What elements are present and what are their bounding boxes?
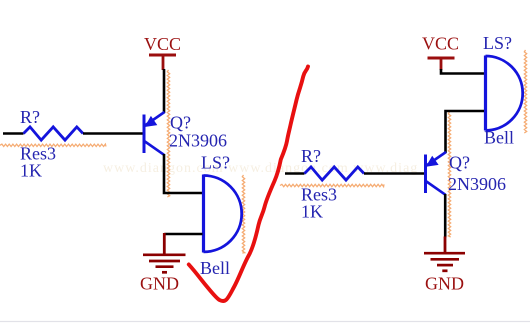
transistor Q1 2N3906	[144, 112, 165, 155]
svg-text:Bell: Bell	[200, 258, 230, 278]
wire right stub to resistor R2	[285, 172, 305, 175]
bottom screenshot edge line	[0, 321, 530, 323]
ground GND right	[424, 237, 465, 294]
svg-text:VCC: VCC	[422, 34, 459, 54]
error squiggle on left VCC net	[167, 70, 169, 197]
svg-text:1K: 1K	[301, 202, 323, 222]
error squiggle on right emitter-collector net	[448, 112, 450, 237]
svg-text:R?: R?	[20, 107, 40, 127]
svg-text:2N3906: 2N3906	[448, 174, 506, 194]
svg-text:GND: GND	[140, 274, 179, 294]
error squiggle on left speaker	[242, 175, 244, 253]
svg-text:LS?: LS?	[483, 33, 512, 53]
svg-text:1K: 1K	[20, 161, 42, 181]
wire resistor R1 to Q1 base	[83, 132, 144, 135]
speaker LS2 Bell	[486, 56, 523, 131]
svg-text:Q?: Q?	[170, 113, 191, 133]
wire left stub to resistor R1	[3, 132, 24, 135]
wire VCC to Q1 emitter	[163, 69, 166, 113]
red check mark annotation	[189, 67, 308, 301]
svg-text:VCC: VCC	[144, 34, 181, 54]
svg-text:R?: R?	[301, 146, 321, 166]
svg-text:GND: GND	[425, 274, 464, 294]
svg-text:Q?: Q?	[449, 153, 470, 173]
wire speaker LS2 bottom pin to Q2 emitter	[446, 111, 485, 153]
wire resistor R2 to Q2 base	[364, 172, 425, 175]
resistor R1 zigzag	[24, 127, 84, 140]
transistor Q2 2N3906	[425, 152, 446, 195]
resistor R2 zigzag	[305, 167, 365, 180]
error squiggle on right base wire	[280, 184, 384, 186]
svg-text:LS?: LS?	[201, 153, 230, 173]
error squiggle on left base wire	[0, 144, 106, 146]
ground GND left	[140, 233, 186, 294]
power port VCC right	[422, 34, 459, 71]
speaker LS1 Bell	[204, 175, 242, 253]
wire Q2 collector to ground	[444, 194, 447, 238]
wire Q1 collector to speaker LS1 top pin	[164, 154, 203, 193]
svg-text:2N3906: 2N3906	[169, 131, 227, 151]
error squiggle on right speaker	[524, 50, 526, 133]
power port VCC left	[144, 34, 181, 70]
wire speaker LS1 bottom pin to ground	[164, 233, 202, 236]
svg-text:Bell: Bell	[484, 128, 514, 148]
wire VCC to speaker LS2 top pin	[441, 69, 484, 74]
